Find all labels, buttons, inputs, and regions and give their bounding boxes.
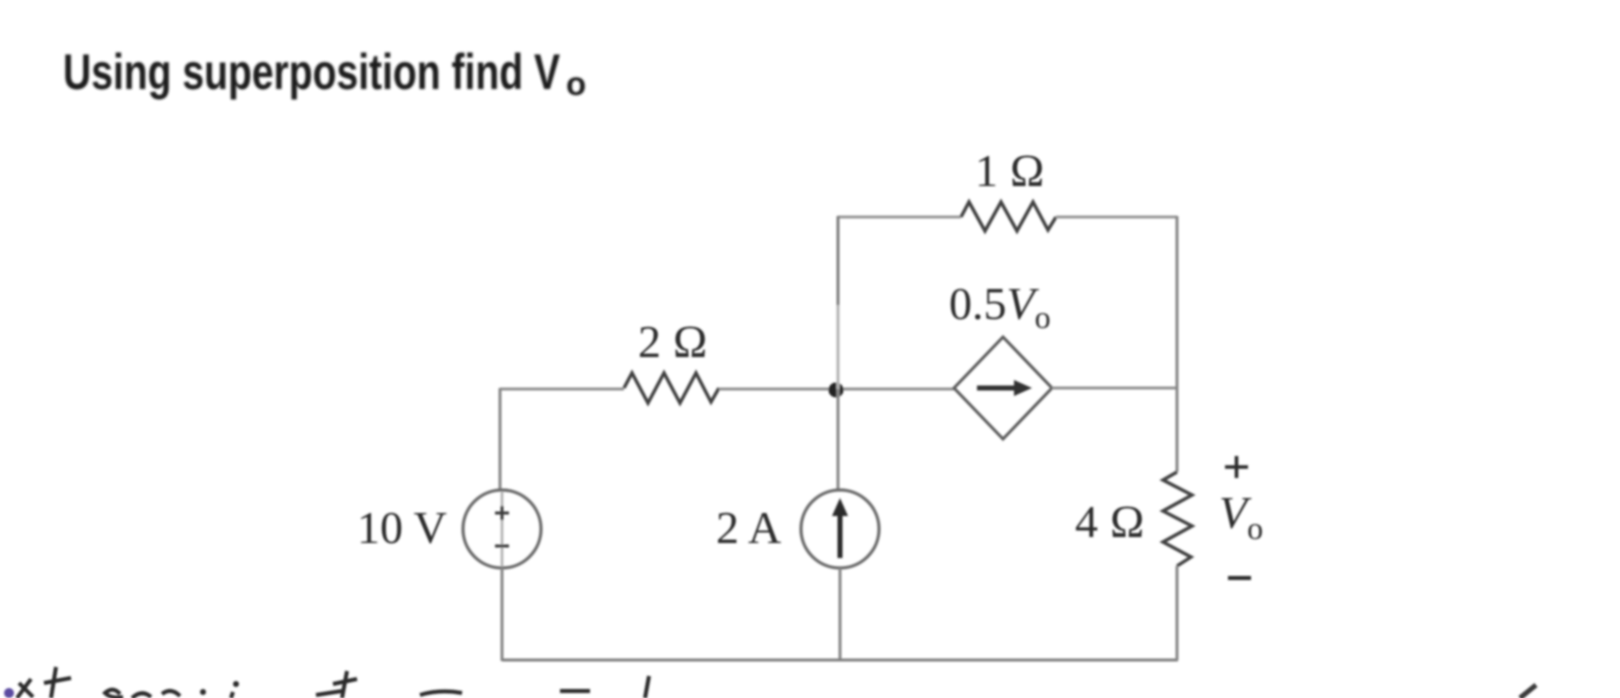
current source 2A arrow (up) <box>838 512 843 558</box>
current source 2A (circle) <box>801 490 879 568</box>
wire: middle horizontal, left segment (left rail to 2ohm resistor) <box>500 388 624 391</box>
wire: right rail, top corner down to 4ohm <box>1176 216 1179 472</box>
voltage source polarity marks <box>495 506 509 520</box>
wire: middle horizontal, segment from 2ohm to node <box>719 388 954 391</box>
title: Using superposition find Vo <box>63 44 586 102</box>
svg-text:2 Ω: 2 Ω <box>638 316 708 367</box>
wire: middle horizontal, segment from diamond to right rail <box>1052 387 1177 390</box>
wire: bottom rail <box>502 659 1178 662</box>
dependent source 0.5Vo (diamond) <box>954 337 1052 439</box>
wire: right rail, 4ohm to bottom rail <box>1176 566 1179 660</box>
wire: middle vertical branch, faint lower part <box>837 305 840 389</box>
wire: middle vertical branch, top corner down to node <box>837 216 840 305</box>
svg-text:1 Ω: 1 Ω <box>975 145 1045 196</box>
handwriting fragment bottom left (cut off) <box>4 667 1536 698</box>
voltage source 10V (circle) <box>463 490 541 568</box>
wire: middle vertical branch, 2A source to bottom rail <box>839 568 842 660</box>
node A (junction dot) <box>829 383 844 398</box>
resistor 1ohm (horizontal zigzag) <box>961 202 1056 231</box>
svg-text:Vo: Vo <box>1219 487 1263 546</box>
svg-text:Using superposition find V: Using superposition find V <box>63 44 561 100</box>
resistor 4ohm (vertical zigzag) <box>1163 472 1192 566</box>
wire: left rail, middle wire down to 10V source <box>499 388 502 491</box>
wire: left rail, 10V source to bottom rail <box>501 568 504 661</box>
handwriting: purple dot <box>4 688 14 698</box>
label: minus sign for Vo <box>1228 576 1251 580</box>
svg-text:4 Ω: 4 Ω <box>1075 496 1145 547</box>
svg-text:o: o <box>566 65 586 102</box>
wire: top rail right segment (1ohm to right rail) <box>1056 216 1177 219</box>
label: plus sign for Vo <box>1225 456 1248 478</box>
resistor 2ohm (horizontal zigzag) <box>624 373 719 403</box>
wire: middle vertical branch, node down to 2A source <box>837 389 840 491</box>
dependent source arrow <box>977 386 1018 391</box>
wire: faint line through 10V source <box>501 492 504 566</box>
svg-text:10 V: 10 V <box>357 502 447 553</box>
svg-text:2 A: 2 A <box>716 502 781 553</box>
wire: top rail left segment (middle branch top corner to 1ohm) <box>838 216 961 219</box>
svg-text:0.5Vo: 0.5Vo <box>949 278 1051 335</box>
handwriting: small mark bottom right <box>1520 685 1536 698</box>
handwriting strokes <box>17 679 33 698</box>
